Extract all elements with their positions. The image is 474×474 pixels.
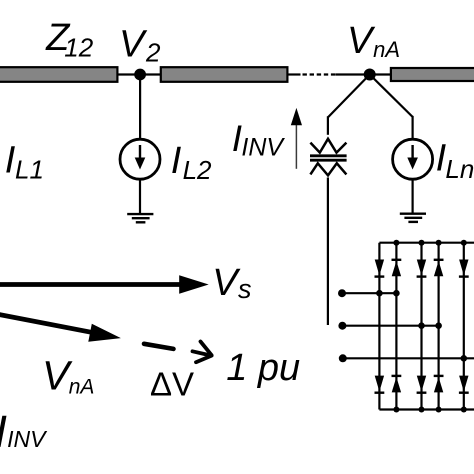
current source ILn: [393, 139, 433, 179]
thyristor T8 lower leg2 up: [392, 376, 402, 393]
label V2: [119, 23, 161, 67]
wire to node VnA: [336, 73, 367, 75]
label IINV bottom: [0, 406, 48, 457]
wire node VnA diagonal right: [370, 75, 413, 117]
impedance block 3: [391, 68, 474, 81]
bridge legs: [379, 243, 463, 410]
label IINV: [232, 118, 286, 162]
thyristor T5 upper leg5 down: [459, 260, 469, 277]
svg-text:I: I: [171, 140, 182, 182]
svg-text:nA: nA: [373, 37, 400, 62]
svg-text:2: 2: [145, 37, 161, 67]
dashed wire: [303, 73, 336, 75]
bridge top bus: [379, 242, 474, 244]
svg-text:nA: nA: [69, 375, 95, 398]
AC line phase C: [339, 354, 474, 362]
svg-text:1 pu: 1 pu: [226, 347, 300, 389]
svg-text:ΔV: ΔV: [150, 365, 194, 402]
phasor VnA: [0, 314, 121, 342]
small arrow to 1pu: [193, 342, 212, 363]
wire node VnA to block3: [373, 73, 392, 75]
svg-text:Ln: Ln: [445, 154, 474, 184]
ground ILn: [400, 214, 426, 222]
svg-text:s: s: [238, 274, 252, 304]
impedance block Z12: [0, 67, 117, 82]
AC line phase B: [338, 322, 442, 330]
svg-text:V: V: [119, 23, 148, 65]
thyristor T9 lower leg3 down: [417, 376, 427, 393]
current source IL2: [120, 139, 160, 179]
label Vs: [212, 262, 251, 304]
wire block1 to node V2: [117, 73, 136, 75]
ground IL2: [127, 214, 153, 222]
node VnA: [364, 69, 376, 81]
svg-text:V: V: [347, 20, 376, 62]
impedance block 2: [161, 67, 288, 82]
thyristor T10 lower leg4 up: [434, 376, 444, 393]
bridge bottom bus: [379, 408, 474, 410]
label IL2: [171, 140, 212, 185]
svg-text:INV: INV: [241, 134, 285, 162]
bus junction dots: [393, 240, 466, 413]
label IL1: [5, 139, 44, 184]
wire ILn to ground: [412, 179, 414, 213]
arrow IINV: [291, 108, 302, 169]
label VnA: [347, 20, 400, 62]
svg-text:I: I: [0, 406, 7, 457]
thyristor T1 upper leg1 down: [375, 260, 385, 277]
svg-text:L1: L1: [15, 154, 44, 184]
svg-text:12: 12: [64, 33, 93, 63]
dashed phasor dV: [144, 344, 174, 349]
label ILn: [436, 138, 474, 184]
thyristor T3 upper leg3 down: [417, 260, 427, 277]
wire down to source ILn: [412, 116, 414, 139]
svg-text:INV: INV: [7, 426, 48, 452]
svg-text:L2: L2: [183, 155, 212, 185]
thyristor T4 upper leg4 up: [434, 260, 444, 277]
wire IL2 to ground: [139, 179, 141, 214]
wire below valve: [327, 178, 329, 326]
svg-text:V: V: [212, 262, 241, 304]
wire V2 down to source IL2: [139, 75, 141, 139]
wire block2 right: [287, 73, 300, 75]
wire node V2 to block2: [144, 73, 162, 75]
label VnA phasor: [42, 353, 94, 399]
thyristor T2 upper leg2 up: [392, 260, 402, 277]
AC line phase A: [338, 289, 400, 297]
thyristor valve symbol: [310, 139, 347, 176]
thyristor T11 lower leg5 down: [459, 376, 469, 393]
wire down to valve: [327, 116, 329, 135]
label Z12: [45, 17, 94, 62]
thyristor T7 lower leg1 down: [375, 376, 385, 393]
node V2: [134, 69, 146, 81]
phasor Vs: [0, 275, 209, 293]
wire node VnA diagonal left: [328, 75, 370, 118]
